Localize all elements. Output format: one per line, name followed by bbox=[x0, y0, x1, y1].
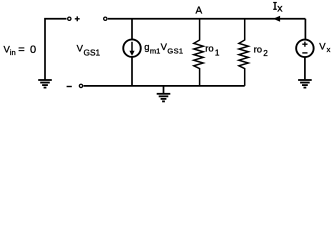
ground under Vx bbox=[298, 57, 312, 87]
resistor ro2 bbox=[239, 19, 248, 86]
wire from top rail down to Vx bbox=[304, 19, 306, 40]
terminal + (top left port) bbox=[68, 17, 71, 20]
resistor ro1 bbox=[194, 19, 203, 86]
svg-text:Vin=0: Vin=0 bbox=[4, 44, 37, 57]
current source gm1VGS1 bbox=[123, 19, 141, 86]
ground left (under Vin wire) bbox=[38, 80, 52, 88]
current arrow Ix (pointing left on top rail) bbox=[273, 16, 280, 22]
ground middle (on bottom rail) bbox=[157, 86, 171, 102]
wire bottom rail bbox=[84, 85, 245, 87]
svg-text:x: x bbox=[277, 2, 283, 14]
svg-text:A: A bbox=[196, 5, 203, 16]
plus sign of port bbox=[75, 16, 80, 21]
label Ix bbox=[273, 3, 277, 10]
wire Vin top to + terminal bbox=[45, 19, 67, 80]
minus sign of port bbox=[67, 86, 72, 88]
wire top rail bbox=[108, 18, 306, 20]
terminal (top rail left end) bbox=[104, 17, 107, 20]
voltage source Vx bbox=[296, 40, 314, 58]
terminal - (bottom left port) bbox=[79, 84, 82, 87]
